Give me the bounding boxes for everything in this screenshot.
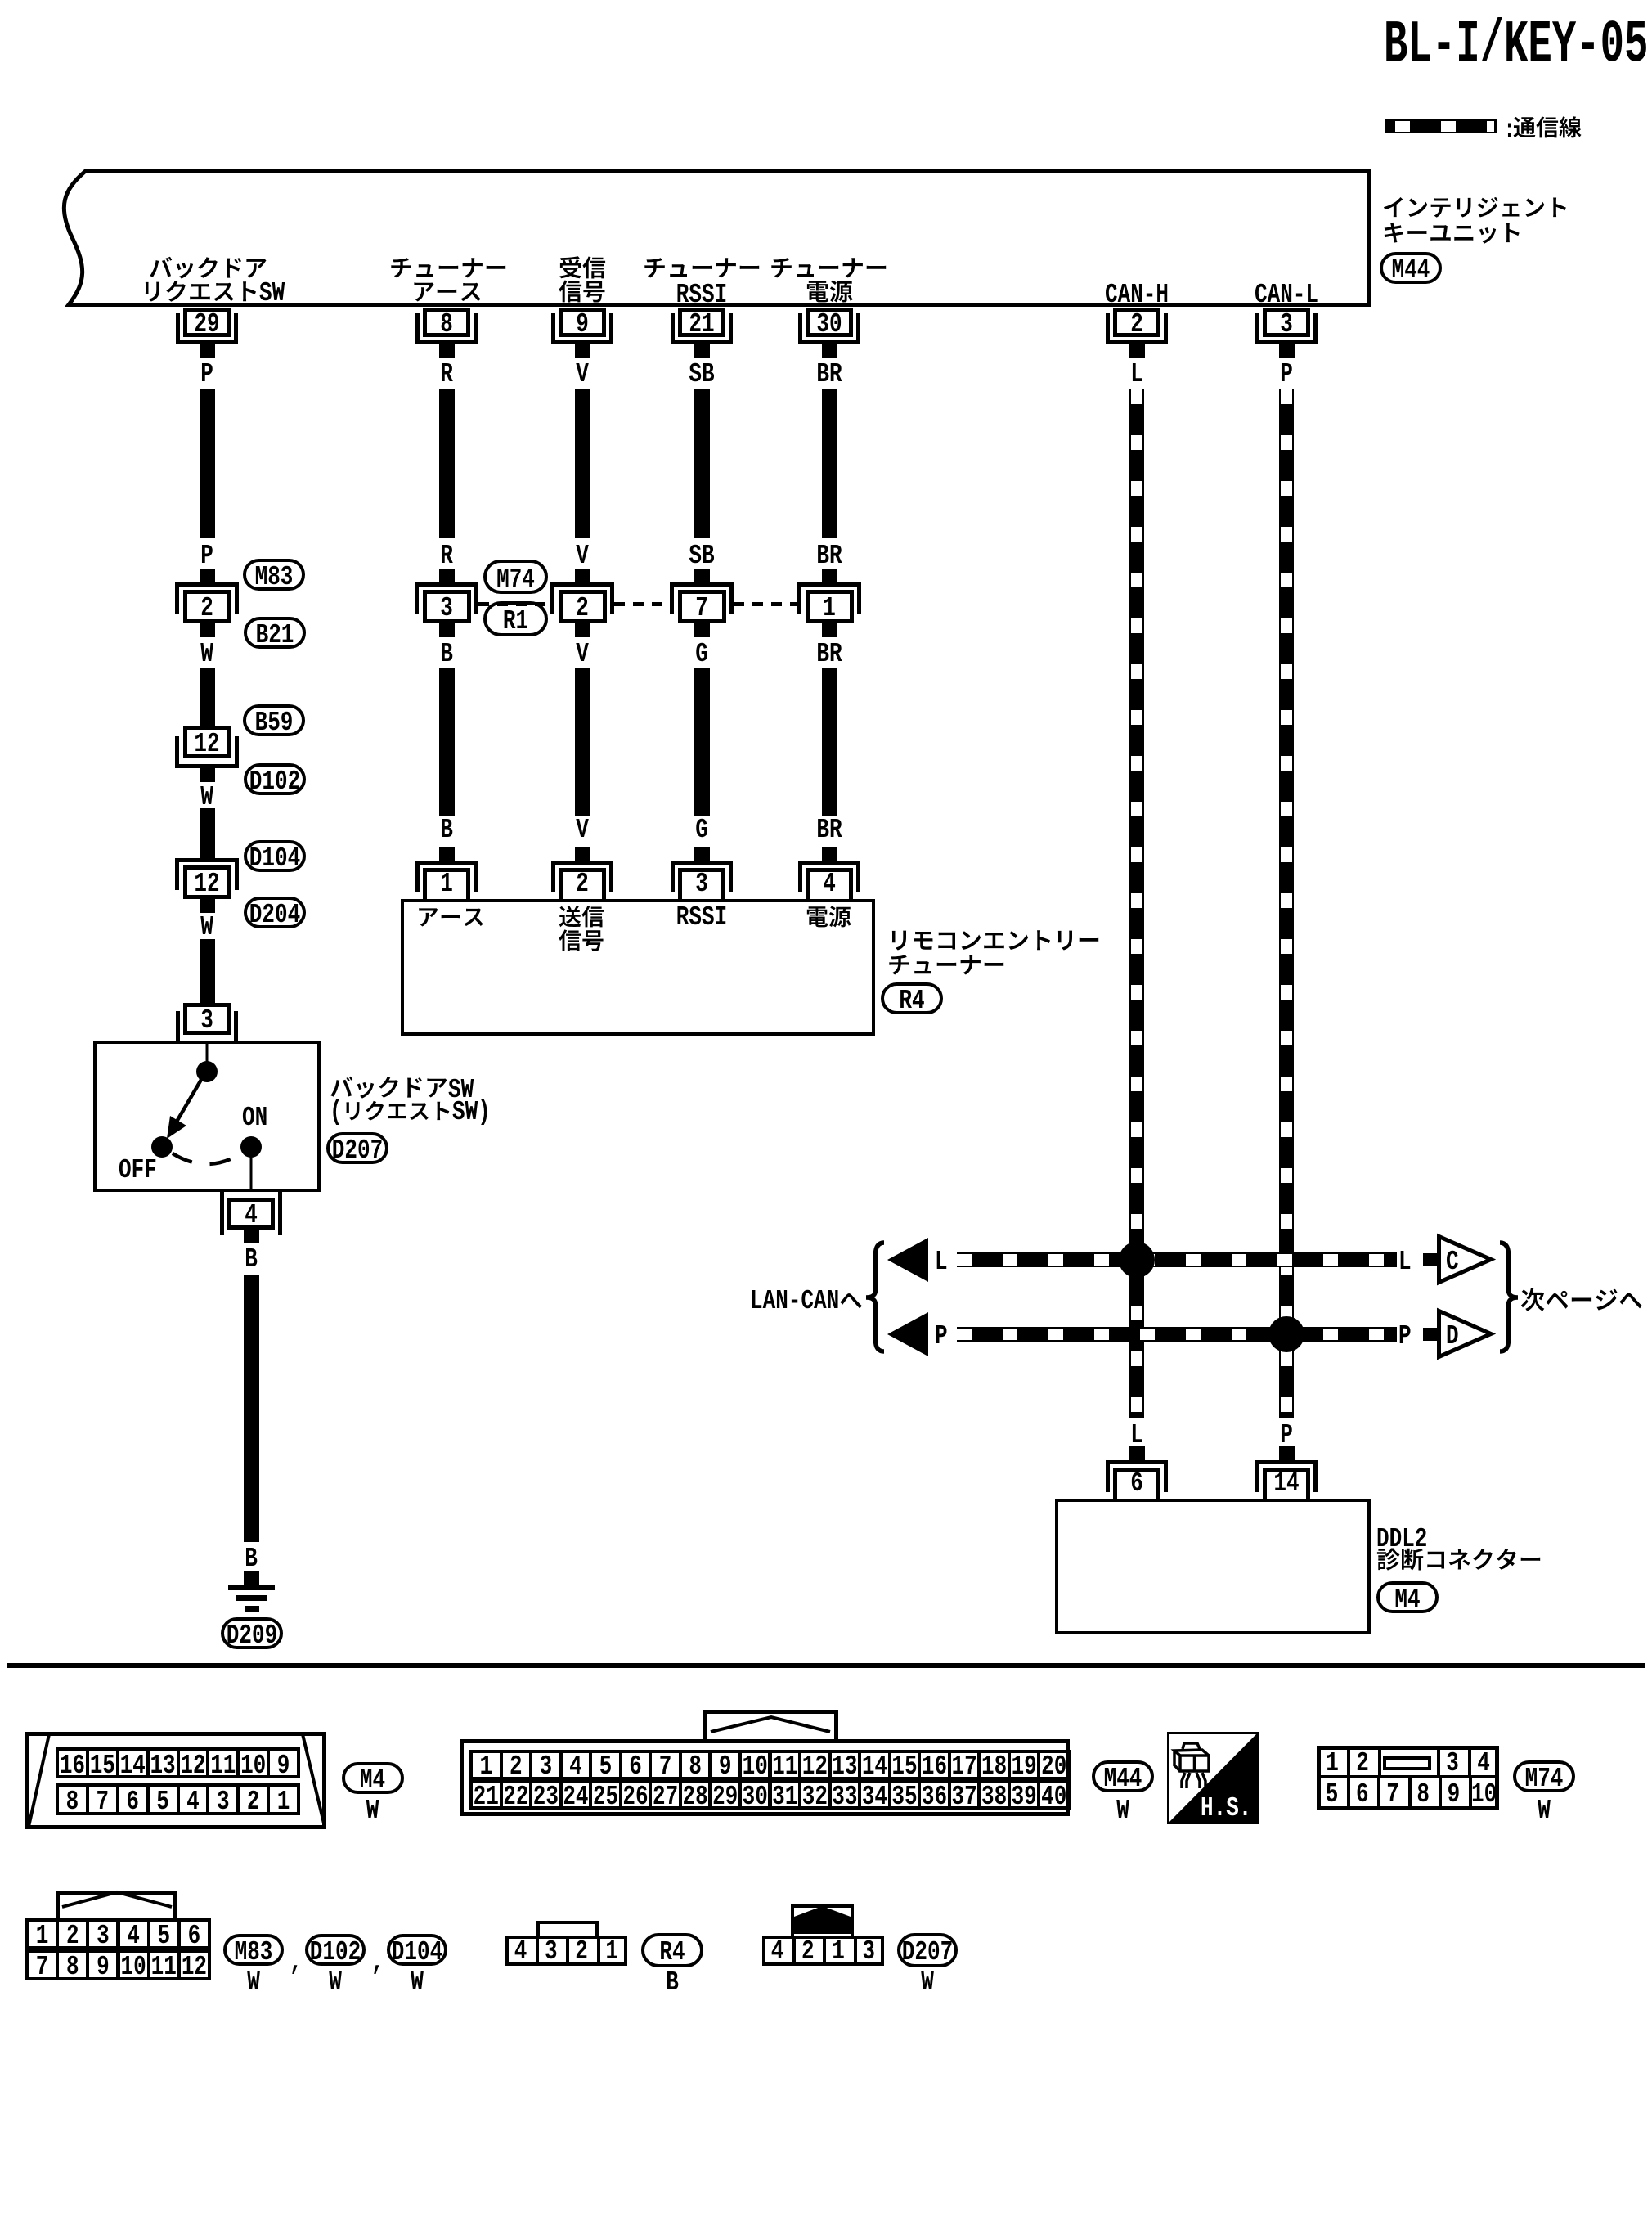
wire [694, 668, 710, 816]
wire color label P [200, 360, 213, 388]
wire color label V [576, 542, 589, 569]
DDL2 pin 6 [1129, 1446, 1145, 1460]
M44 pin 21 (tuner RSSI) [671, 313, 675, 344]
M44 wire to switch pin 3 [183, 1003, 231, 1035]
wire color label L [1130, 1421, 1143, 1449]
wire color label BR [816, 542, 842, 569]
connector face M74 10pin [1317, 1746, 1499, 1810]
pin label チューナーRSSI [676, 281, 727, 308]
M44 pin 8 (tuner ground) [415, 313, 420, 344]
wire [575, 389, 590, 538]
R4 pin 4 [822, 847, 837, 861]
connector oval M4 [342, 1762, 404, 1794]
wire color label L [1130, 360, 1143, 388]
M44 pin 2 (CAN-H) [1106, 313, 1110, 344]
connector oval D104 [387, 1934, 447, 1966]
wire color label R [440, 542, 453, 569]
M44 pin 3 (CAN-L) [1255, 313, 1259, 344]
inline connector M74/R1 pin 2 [575, 569, 590, 582]
wire [439, 389, 455, 538]
legend communication line symbol [1385, 119, 1497, 121]
wire [822, 668, 837, 816]
wire color label B [245, 1245, 258, 1273]
wire [200, 668, 215, 712]
connector oval M4 [1376, 1581, 1439, 1613]
DDL2 pin 14 [1279, 1446, 1295, 1460]
wire [694, 389, 710, 538]
wire color W [1538, 1796, 1551, 1824]
switch box backdoor SW D207 [93, 1041, 321, 1192]
connector oval R4 [881, 982, 943, 1014]
wire color label SB [689, 542, 714, 569]
harness symbol H.S. [1167, 1732, 1259, 1824]
wire color label W [200, 913, 213, 941]
connector oval R1 [483, 601, 548, 636]
label LAN-CANへ [750, 1287, 839, 1315]
wire color label B [440, 816, 453, 843]
wire [575, 668, 590, 816]
wire color B [666, 1968, 679, 1996]
wire color label BR [816, 640, 842, 668]
switch pin 4 [227, 1198, 275, 1230]
wire [822, 389, 837, 538]
inline connector M74/R1 pin 3 [439, 569, 455, 582]
wire [200, 808, 215, 844]
title BL-I/KEY-05 [1384, 16, 1648, 76]
connector face R4 4pin [505, 1936, 627, 1966]
CAN L bus line to LAN-CAN [935, 1248, 948, 1275]
legend label 通信線 [1503, 116, 1516, 144]
connector face M4 16pin [25, 1732, 326, 1829]
R4 pin 3 [694, 847, 710, 861]
M44 pin 30 (tuner power) [798, 313, 802, 344]
CAN-H communication wire [1129, 389, 1144, 1418]
inline connector M83/B21 pin 2 [200, 569, 215, 582]
connector oval D207 [326, 1132, 388, 1164]
connector oval D204 [244, 897, 306, 928]
wire color W [366, 1796, 379, 1824]
wire color label V [576, 640, 589, 668]
wire color W [921, 1968, 934, 1996]
label ON [242, 1104, 267, 1131]
wire color label P [1280, 360, 1293, 388]
wire color label G [695, 816, 708, 843]
connector face M44 40pin [460, 1739, 1070, 1816]
connector oval M83 [223, 1934, 284, 1966]
wire color label B [245, 1544, 258, 1572]
pin label バックドア リクエストSW [259, 279, 285, 307]
connector face 12pin M83/D102/D104 [56, 1891, 177, 1922]
label RSSI [676, 903, 727, 931]
wire color label V [576, 816, 589, 843]
dashed connector link [478, 602, 797, 606]
label OFF [119, 1156, 157, 1184]
wire color label SB [689, 360, 714, 388]
connector oval R4 [641, 1933, 703, 1967]
component box remote entry tuner R4 [401, 899, 875, 1036]
CAN-L communication wire [1279, 389, 1294, 1418]
connector oval M83 [243, 559, 305, 591]
wire color W [1116, 1796, 1129, 1824]
CAN P bus line to LAN-CAN [935, 1322, 948, 1350]
R4 pin 2 [575, 847, 590, 861]
connector oval D104 [244, 840, 306, 872]
wire color label P [1280, 1421, 1293, 1449]
connector oval D102 [244, 763, 306, 795]
wire [200, 939, 215, 1003]
inline connector M74/R1 pin 7 [694, 569, 710, 582]
connector face D207 4pin [762, 1936, 884, 1966]
connector oval M74 [1513, 1760, 1575, 1792]
connector oval B21 [244, 617, 306, 649]
wire color label R [440, 360, 453, 388]
M44 pin 29 (backdoor request) [176, 313, 180, 344]
connector oval B59 [243, 704, 305, 736]
ground D209 [228, 1585, 275, 1590]
wire color label BR [816, 360, 842, 388]
wire color label W [200, 783, 213, 811]
connector oval D207 [897, 1933, 958, 1967]
inline connector M74/R1 pin 1 [822, 569, 837, 582]
wire color label W [200, 640, 213, 668]
connector oval M44 [1092, 1760, 1154, 1792]
connector oval M74 [483, 560, 548, 594]
DDL2 box M4 [1055, 1499, 1371, 1634]
wire [439, 668, 455, 816]
wire color label V [576, 360, 589, 388]
wire color label G [695, 640, 708, 668]
M44 pin 9 (rx signal) [551, 313, 555, 344]
inline connector D104/D204 pin 12 [200, 844, 215, 858]
pin label CAN-H [1105, 281, 1169, 308]
pin label CAN-L [1255, 281, 1318, 308]
label DDL2 [1376, 1525, 1427, 1553]
connector oval D102 [305, 1934, 366, 1966]
separator line [7, 1663, 1645, 1668]
wire [200, 389, 215, 538]
wire color label B [440, 640, 453, 668]
R4 pin 1 [439, 847, 455, 861]
inline connector B59/D102 pin 12 [200, 712, 215, 726]
wire color label P [200, 542, 213, 569]
wire [244, 1275, 259, 1542]
label バックドアSW(リクエストSW) [448, 1076, 474, 1104]
wire color label BR [816, 816, 842, 843]
connector oval M44 [1380, 252, 1442, 284]
ground oval D209 [221, 1617, 283, 1649]
